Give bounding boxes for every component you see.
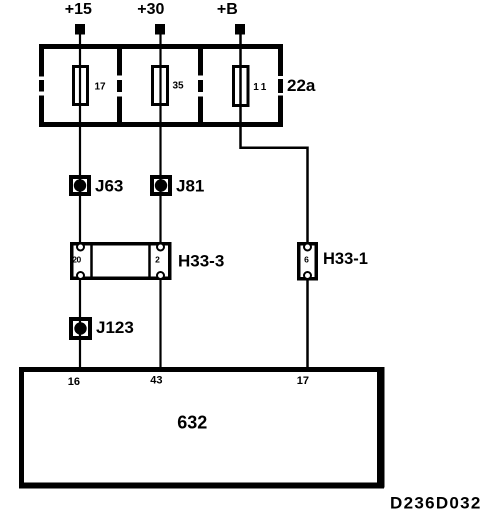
svg-text:+B: +B: [217, 1, 238, 18]
svg-text:16: 16: [68, 376, 80, 388]
svg-text:35: 35: [172, 81, 184, 92]
svg-text:17: 17: [94, 82, 106, 93]
connector H33-1 pin circle top: [304, 244, 311, 251]
svg-text:11: 11: [253, 82, 269, 93]
svg-text:22a: 22a: [287, 76, 316, 95]
svg-text:J81: J81: [176, 177, 204, 196]
fuse box 22a frame left edge (dashed): [39, 44, 44, 127]
terminal square +15: [75, 24, 85, 35]
svg-text:H33-1: H33-1: [323, 250, 368, 268]
wire W2 (+30 feed, x=160.5, terminal to connector 632 pin 43): [159, 34, 161, 368]
junction connector J123: [71, 319, 90, 338]
wire W3 (+B feed, terminal through fuse to H33-1 and 632 pin 17): [241, 34, 308, 368]
connector H33-3 pin circle 2 bottom: [157, 272, 164, 279]
wire W1 (+15 feed, x=80, terminal to connector 632 pin 16): [79, 34, 81, 368]
svg-text:20: 20: [72, 255, 81, 265]
connector H33-3 pin circle 20 top: [77, 244, 84, 251]
svg-text:J63: J63: [95, 177, 123, 196]
fuse box 22a divider 2 (dashed): [198, 44, 203, 127]
connector H33-3 pin circle 2 top: [157, 244, 164, 251]
svg-text:+15: +15: [65, 1, 92, 18]
fuse F17 symbol: [74, 67, 88, 105]
fuse box 22a frame top edge: [39, 44, 283, 49]
svg-text:J123: J123: [96, 318, 134, 337]
terminal square +30: [155, 24, 165, 35]
control unit 632 body: [22, 370, 383, 486]
svg-text:H33-3: H33-3: [178, 252, 224, 271]
svg-text:632: 632: [177, 413, 207, 433]
junction connector J63: [71, 177, 89, 194]
fuse F11 symbol: [234, 67, 249, 106]
svg-text:43: 43: [150, 375, 162, 387]
fuse box 22a frame bottom edge: [39, 122, 283, 127]
connector H33-1 body: [299, 244, 317, 279]
connector H33-3 pin circle 20 bottom: [77, 272, 84, 279]
junction connector J81: [152, 177, 170, 194]
terminal square +B: [235, 24, 245, 35]
fuse box 22a divider 1 (dashed): [117, 44, 122, 127]
fuse box 22a frame right edge (dashed): [278, 44, 283, 127]
svg-text:+30: +30: [137, 1, 164, 18]
svg-text:6: 6: [304, 255, 309, 265]
fuse F35 symbol: [153, 67, 168, 105]
svg-text:D236D032: D236D032: [390, 494, 482, 513]
svg-text:2: 2: [155, 255, 160, 265]
connector H33-1 pin circle bottom: [304, 272, 311, 279]
svg-text:17: 17: [297, 375, 309, 387]
connector H33-3 body: [72, 244, 170, 279]
